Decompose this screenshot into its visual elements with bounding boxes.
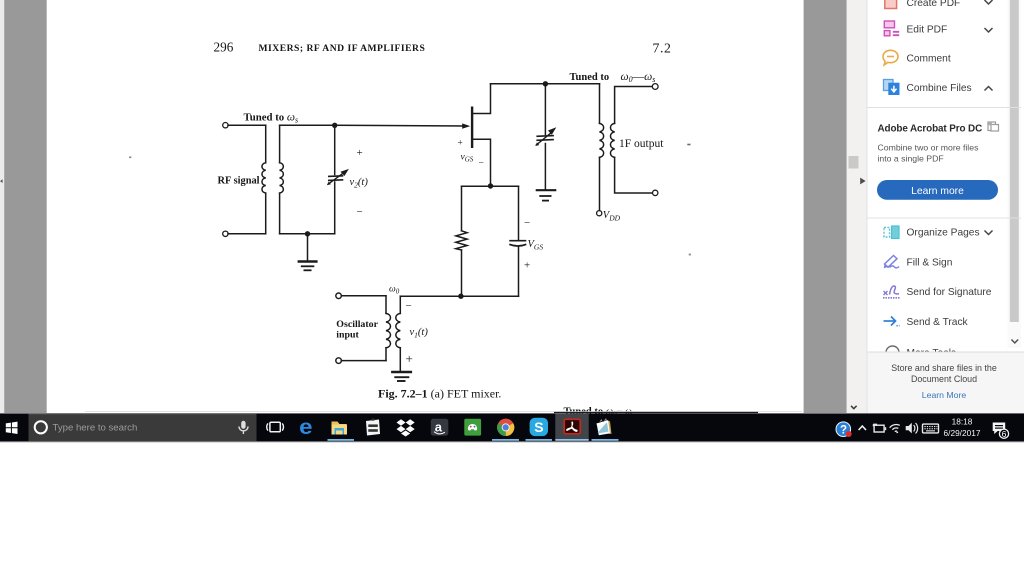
wire osc primary top stub — [385, 296, 387, 314]
svg-text:e: e — [299, 414, 312, 438]
tool row Comment — [883, 50, 951, 65]
tool row Edit PDF — [884, 21, 992, 36]
terminal RF top — [223, 123, 228, 128]
wire osc input bottom — [342, 360, 387, 362]
promo corner icon — [988, 122, 999, 131]
document canvas gray right — [804, 0, 847, 413]
tools panel scrollbar down arrow — [1011, 340, 1018, 343]
wire bias horizontal — [462, 185, 519, 187]
terminal RF bottom — [223, 231, 228, 236]
task view icon — [267, 422, 284, 432]
tools panel scrollbar thumb — [1010, 0, 1019, 322]
cortana circle icon — [35, 421, 47, 433]
tool row Create PDF (cut off) — [885, 0, 993, 9]
acrobat underline — [555, 439, 588, 441]
left pane edge strip — [0, 0, 4, 413]
skype icon — [530, 418, 548, 436]
wire C1 branch lower — [334, 182, 336, 234]
partial next figure wire — [554, 412, 758, 414]
svg-text:Tuned to ωs: Tuned to ωs — [244, 112, 299, 125]
node tank top junction — [332, 123, 337, 128]
svg-text:+: + — [458, 139, 463, 149]
svg-text:+: + — [524, 260, 530, 272]
wire source bias bottom rail — [400, 295, 518, 297]
svg-text:Oscillator: Oscillator — [336, 319, 378, 330]
wire IF primary bottom to VDD — [599, 157, 601, 210]
svg-text:+: + — [406, 351, 413, 366]
wire IF secondary top — [615, 87, 653, 124]
document scrollbar thumb — [849, 156, 859, 169]
wire C3 lower stub — [518, 247, 520, 296]
notepad underline — [592, 439, 619, 441]
svg-text:Send for Signature: Send for Signature — [907, 287, 992, 298]
wire top rail — [491, 83, 600, 85]
svg-text:+: + — [357, 147, 363, 159]
notepad icon — [597, 419, 612, 435]
tool row Send for Signature — [883, 286, 992, 298]
terminal IF out top — [652, 84, 658, 90]
tools panel background — [867, 0, 1024, 352]
tool row Send and Track — [884, 317, 969, 329]
svg-text:7.2: 7.2 — [653, 41, 672, 56]
tool row More Tools (cut off) — [886, 346, 956, 359]
inductor L1 RF primary winding — [262, 163, 266, 193]
wire RF primary top stub — [265, 125, 267, 163]
tool row Organize Pages — [884, 226, 993, 239]
learn more button — [877, 180, 998, 200]
capacitor C1 arrow — [327, 169, 349, 185]
svg-text:S: S — [534, 419, 543, 435]
capacitor C2 arrow — [536, 127, 557, 146]
wire RF input bottom — [228, 233, 266, 235]
wire tank top — [280, 124, 335, 126]
inductor L2 RF secondary winding — [280, 163, 284, 193]
svg-text:6: 6 — [1002, 429, 1007, 439]
notes app icon — [366, 418, 380, 436]
svg-text:6/29/2017: 6/29/2017 — [944, 428, 981, 438]
svg-text:Store and share files in the: Store and share files in the — [891, 363, 997, 373]
svg-text:−: − — [479, 159, 484, 169]
wire C2 branch lower — [544, 144, 546, 190]
svg-text:input: input — [336, 330, 359, 341]
wire IF secondary bottom — [615, 157, 653, 193]
tray speaker icon — [906, 423, 918, 434]
wire C2 branch upper — [544, 84, 546, 135]
svg-text:a: a — [435, 420, 443, 435]
svg-text:Edit PDF: Edit PDF — [907, 25, 948, 36]
svg-text:into a single PDF: into a single PDF — [878, 154, 944, 164]
acrobat reader icon — [564, 419, 580, 433]
start button windows logo — [6, 422, 18, 434]
wire tank bottom — [280, 233, 335, 235]
ground G1 — [298, 262, 318, 271]
svg-text:−: − — [524, 217, 530, 229]
action center icon — [993, 423, 1009, 440]
tool row Fill and Sign — [884, 256, 953, 269]
left pane collapse arrow — [0, 179, 3, 183]
inductor L4 IF secondary winding — [610, 123, 614, 157]
inductor L5 oscillator primary winding — [386, 313, 391, 347]
wire RF primary bottom stub — [265, 193, 267, 234]
node source junction — [488, 183, 493, 188]
svg-text:296: 296 — [214, 40, 234, 55]
capacitor C3 plates — [509, 241, 526, 246]
page background — [0, 0, 1024, 413]
microphone icon — [239, 421, 248, 434]
wire gate lead — [335, 124, 467, 127]
svg-text:18:18: 18:18 — [952, 416, 973, 426]
svg-text:Document Cloud: Document Cloud — [911, 374, 977, 384]
tray keyboard icon — [923, 424, 939, 433]
tray battery icon — [873, 424, 886, 432]
wire IF primary top stub — [599, 84, 601, 124]
svg-text:Combine two or more files: Combine two or more files — [878, 143, 980, 153]
svg-text:−: − — [406, 300, 412, 312]
scan speck 3 — [689, 254, 691, 256]
svg-text:Send & Track: Send & Track — [907, 317, 969, 328]
wire RF input top — [228, 124, 266, 126]
wire FET drain tap — [473, 84, 491, 114]
chrome underline — [492, 439, 519, 441]
terminal IF out bottom — [653, 190, 658, 195]
tray chevron up — [859, 426, 866, 430]
svg-text:Fig. 7.2–1 (a) FET mixer.: Fig. 7.2–1 (a) FET mixer. — [378, 387, 501, 401]
svg-text:MIXERS; RF AND IF AMPLIFIERS: MIXERS; RF AND IF AMPLIFIERS — [259, 43, 426, 54]
document scrollbar strip — [847, 0, 867, 413]
capacitor C2 variable plates — [536, 136, 554, 141]
taskbar bottom edge line — [0, 442, 1024, 443]
inductor L6 oscillator secondary winding — [396, 313, 401, 347]
svg-text:RF signal: RF signal — [218, 176, 260, 187]
svg-text:Create PDF: Create PDF — [907, 0, 961, 9]
wire osc primary bottom stub — [385, 348, 387, 361]
document scrollbar down arrow — [851, 406, 857, 409]
panel collapse arrow — [860, 178, 865, 185]
separator — [867, 107, 1022, 109]
wire osc secondary top stub — [399, 296, 401, 313]
svg-text:Fill & Sign: Fill & Sign — [907, 258, 953, 269]
chrome icon — [497, 419, 514, 436]
acrobat active cell highlight — [555, 413, 588, 439]
capacitor C1 variable plates — [328, 176, 343, 181]
search box — [29, 413, 257, 441]
document canvas gray left — [4, 0, 47, 413]
terminal VDD — [597, 211, 602, 216]
wire osc secondary bottom stub — [399, 348, 401, 371]
wire FET source tap — [473, 139, 491, 186]
dropbox icon — [397, 419, 415, 436]
svg-text:v1(t): v1(t) — [410, 327, 429, 340]
svg-text:Combine Files: Combine Files — [907, 83, 972, 94]
wire C1 branch upper — [334, 125, 336, 174]
tray wifi icon — [889, 424, 901, 435]
svg-text:1F output: 1F output — [619, 138, 664, 150]
wire RF secondary top stub — [279, 125, 281, 162]
wire R1 lower stub — [461, 250, 463, 296]
terminal osc top — [336, 293, 342, 299]
inductor L3 IF primary winding — [600, 123, 604, 157]
tool row Combine Files — [884, 80, 993, 95]
file explorer underline — [328, 439, 355, 441]
green game icon — [464, 419, 481, 436]
wire R1 upper stub — [461, 186, 463, 231]
file explorer icon — [332, 422, 348, 435]
scan artifact line — [85, 410, 802, 412]
svg-text:Comment: Comment — [907, 54, 951, 65]
docked document cloud box — [868, 352, 1024, 413]
node top rail junction — [543, 81, 548, 86]
ground G2 — [536, 190, 557, 200]
resistor R1 zigzag — [456, 231, 467, 250]
wire osc input top — [342, 295, 387, 297]
wire ground stem G1 — [307, 234, 309, 261]
svg-text:Organize Pages: Organize Pages — [907, 228, 980, 239]
separator — [867, 217, 1022, 219]
svg-text:−: − — [357, 206, 363, 218]
svg-text:Learn More: Learn More — [922, 390, 967, 400]
node bottom rail junction — [458, 294, 463, 299]
taskbar background — [0, 413, 1024, 441]
wire RF secondary bottom stub — [279, 193, 281, 234]
scan speck 1 — [129, 157, 131, 159]
tools panel scrollbar track — [1008, 0, 1022, 348]
transistor Q1 FET channel bar — [471, 107, 473, 149]
tray help icon — [836, 422, 852, 437]
node tank bottom junction — [305, 231, 310, 236]
wire C3 upper stub — [518, 186, 520, 239]
skype underline — [526, 439, 553, 441]
ground G3 — [391, 372, 412, 381]
terminal osc bottom — [336, 358, 342, 364]
transistor Q1 gate arrow — [462, 123, 470, 128]
svg-text:Type here to search: Type here to search — [53, 423, 138, 434]
svg-text:Adobe Acrobat Pro DC: Adobe Acrobat Pro DC — [878, 124, 983, 135]
amazon icon — [431, 419, 449, 436]
svg-text:Learn more: Learn more — [911, 186, 964, 197]
svg-text:v2(t): v2(t) — [350, 177, 369, 190]
scan speck 2 — [687, 144, 690, 146]
